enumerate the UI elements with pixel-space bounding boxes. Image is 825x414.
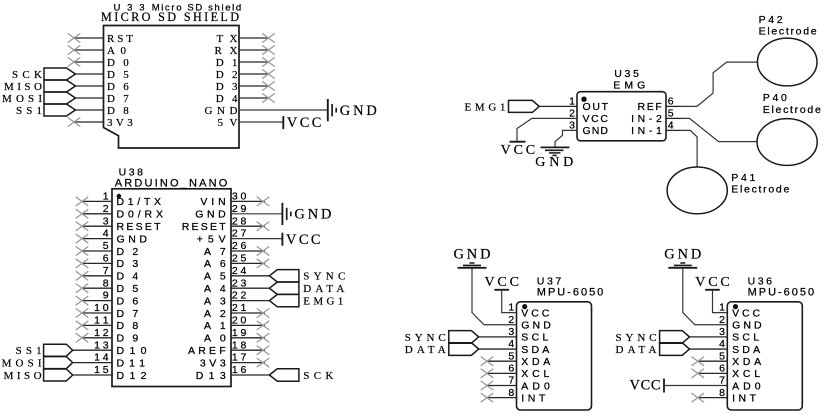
pin 4 IN-1 of U35 (right) [631,120,681,138]
pin D8 of U33 (left) [74,105,129,117]
no-connect X on U36 pin 6 [692,369,705,378]
svg-text:6: 6 [103,253,109,265]
power symbol VCC at U36 pin 7 AD0 [630,377,665,393]
no-connect X on U38 pin 6 [76,259,89,268]
svg-text:GND: GND [195,209,226,221]
svg-text:RST: RST [107,33,133,45]
svg-text:OUT: OUT [583,101,609,113]
svg-text:SS1: SS1 [16,105,42,117]
net flag MISO at U33 [4,80,75,93]
pin 12 D9 of U38 (left) [82,327,138,345]
svg-text:5: 5 [508,350,514,362]
svg-text:8: 8 [103,277,109,289]
svg-text:9: 9 [103,290,109,302]
pin A0 of U33 (left) [74,45,127,57]
power symbol GND at U33 pin GND [328,99,377,121]
svg-text:P42: P42 [759,14,783,26]
net flag MOSI at U33 [2,92,75,105]
pin 28 RESET of U38 (right) [182,215,265,233]
ground symbol GND below U35 [535,147,573,170]
pin 25 A6 of U38 (right) [204,253,265,271]
pin 11 D8 of U38 (left) [82,315,138,333]
svg-text:1: 1 [103,191,109,203]
net flag SCK at U38 pin 16 [269,369,333,382]
net flag SS1 at U33 [16,104,75,117]
pin 29 GND of U38 (right) [195,203,282,221]
pin D2 of U33 (right) [216,69,269,81]
svg-text:SCL: SCL [732,332,759,344]
wire U35 pin 2 VCC to power symbol [517,118,577,141]
pin 24 A5 of U38 (right) [204,265,269,283]
svg-text:GND: GND [732,320,762,332]
pin 16 D13 of U38 (right) [196,364,270,382]
net flag DATA at U38 pin 23 [269,282,344,295]
wire ground to U36 pin 2 [683,268,728,325]
IC U33 MICRO SD SHIELD body [104,26,240,149]
pin 27 +5V of U38 (right) [197,228,283,246]
power symbol VCC below U35 [501,142,536,159]
no-connect X on U38 pin 11 [76,321,89,330]
pin 2 GND of U36 [719,314,762,332]
no-connect X on U33 pin RX [262,45,275,54]
pin 18 AREF of U38 (right) [188,339,265,357]
svg-text:Electrode: Electrode [731,184,789,196]
pin 1 D1/TX of U38 (left) [82,191,161,209]
pin 8 D5 of U38 (left) [82,277,138,295]
net flag SS1 at U38 pin 13 [16,344,73,357]
pin 6 XCL of U36 [698,362,760,380]
pin D7 of U33 (left) [74,93,129,105]
pin 2 D0/RX of U38 (left) [82,203,163,221]
svg-text:GND: GND [454,246,491,262]
pin 1 marker dot of U37 [522,304,527,309]
svg-text:3V3: 3V3 [107,117,133,129]
wire U35 pin 3 GND to ground symbol [555,130,577,147]
no-connect X on U38 pin 2 [76,209,89,218]
svg-text:GND: GND [294,207,331,223]
pin 21 A2 of U38 (right) [204,302,265,320]
no-connect X on U38 pin 25 [257,259,270,268]
pin 7 AD0 of U37 [487,375,550,393]
pin 1 marker dot of U36 [733,304,738,309]
pin 26 A7 of U38 (right) [204,240,265,258]
svg-text:SCK: SCK [303,370,333,382]
net flag SYNC at U36 [616,331,690,344]
power symbol GND at U38 pin 29 [282,203,331,225]
svg-text:D11: D11 [117,357,146,369]
svg-text:VCC: VCC [732,307,760,319]
no-connect X on U38 pin 3 [76,222,89,231]
power symbol VCC at U33 pin 5V [283,115,321,131]
pin D6 of U33 (left) [74,81,129,93]
pin RST of U33 (left) [74,33,133,45]
svg-text:4: 4 [508,338,514,350]
svg-text:6: 6 [668,96,674,108]
IC U36 MPU-6050 body [727,302,802,410]
svg-text:GND: GND [664,246,701,262]
svg-text:P41: P41 [731,172,755,184]
no-connect X on U38 pin 20 [257,321,270,330]
wire VCC to U37 pin 1 [502,290,517,313]
wire VCC to U36 pin 1 [713,290,728,313]
svg-text:5: 5 [719,350,725,362]
no-connect X on U38 pin 19 [257,333,270,342]
no-connect X on U33 pin D3 [262,81,275,90]
pin D3 of U33 (right) [216,81,269,93]
pin 8 INT of U37 [487,387,546,405]
pin 2 VCC of U35 (left) [569,108,608,126]
pin D5 of U33 (left) [74,69,129,81]
svg-text:2: 2 [719,314,725,326]
svg-text:SS1: SS1 [16,345,42,357]
net flag EMG1 at U35 pin 1 [465,100,540,113]
pin 9 D6 of U38 (left) [82,290,138,308]
pin 23 A4 of U38 (right) [204,277,269,295]
svg-text:3: 3 [103,215,109,227]
svg-text:+5V: +5V [197,233,226,245]
svg-text:7: 7 [103,265,109,277]
no-connect X on U38 pin 17 [257,358,270,367]
electrode P40 [757,119,817,166]
pin 15 D12 of U38 (left) [73,364,147,382]
no-connect X on U36 pin 8 [692,393,705,402]
no-connect X on U38 pin 7 [76,271,89,280]
pin 5 XDA of U36 [698,350,761,368]
net flag SYNC at U38 pin 24 [269,270,345,283]
label P42 Electrode [759,14,817,38]
no-connect X on U37 pin 5 [481,357,494,366]
pin 2 GND of U37 [508,314,551,332]
pin 3 RESET of U38 (left) [82,215,161,233]
svg-text:4: 4 [668,120,674,132]
svg-text:VCC: VCC [501,143,536,158]
svg-text:GND: GND [583,125,609,137]
svg-text:D0/RX: D0/RX [117,209,164,221]
svg-text:XCL: XCL [521,368,549,380]
pin 5 D2 of U38 (left) [82,240,138,258]
svg-text:VCC: VCC [521,307,549,319]
svg-text:Electrode: Electrode [763,104,821,116]
wire U35 IN-1 to electrode P41 [681,130,697,167]
no-connect X on U38 pin 12 [76,333,89,342]
svg-text:VCC: VCC [287,115,322,131]
IC U35 EMG body [577,92,666,141]
no-connect X on U37 pin 6 [481,369,494,378]
no-connect X on U38 pin 30 [257,197,270,206]
wire U35 REF to electrode P42 [681,62,757,106]
pin 17 3V3 of U38 (right) [200,352,265,370]
net flag SYNC at U37 [405,331,479,344]
svg-text:U35: U35 [614,68,639,80]
no-connect X on U38 pin 10 [76,308,89,317]
svg-text:5: 5 [668,108,674,120]
pin 3 SCL of U37 [479,326,549,344]
svg-text:7: 7 [508,375,514,387]
svg-text:EMG: EMG [613,79,645,91]
svg-text:1: 1 [508,302,514,314]
svg-text:6: 6 [719,362,725,374]
svg-text:D12: D12 [117,370,147,382]
wire ground to U37 pin 2 [472,268,517,325]
pin 7 D4 of U38 (left) [82,265,138,283]
svg-text:VCC: VCC [583,113,609,125]
svg-text:VCC: VCC [286,232,321,248]
svg-text:AD0: AD0 [521,380,550,392]
no-connect X on U37 pin 7 [481,381,494,390]
pin 1 VCC of U37 [508,302,549,320]
pin 3V3 of U33 (left) [74,117,133,129]
svg-text:8: 8 [508,387,514,399]
pin 7 AD0 of U36 [664,375,760,393]
ground symbol GND above U36 [664,246,701,267]
net flag DATA at U36 [616,343,690,356]
svg-text:2: 2 [103,203,109,215]
svg-text:2: 2 [569,108,575,120]
svg-text:2: 2 [508,314,514,326]
svg-text:XDA: XDA [521,356,550,368]
svg-text:GND: GND [535,155,573,170]
no-connect X on U33 pin A0 [68,45,81,54]
pin 14 D11 of U38 (left) [73,352,145,370]
net flag SCK at U33 [12,68,75,81]
pin 13 D10 of U38 (left) [73,339,147,357]
pin D0 of U33 (left) [74,57,129,69]
svg-text:GND: GND [205,105,238,117]
svg-text:GND: GND [117,233,148,245]
svg-text:Electrode: Electrode [759,26,817,38]
svg-text:8: 8 [719,387,725,399]
svg-text:XCL: XCL [732,368,760,380]
label P41 Electrode [731,172,789,196]
pin 3 GND of U35 (left) [569,120,608,138]
svg-text:ARDUINO_NANO: ARDUINO_NANO [115,178,228,190]
pin GND of U33 (right) [205,105,328,117]
net flag MISO at U38 pin 15 [4,369,73,382]
svg-text:AD0: AD0 [732,380,761,392]
power symbol VCC above U37 [484,275,519,290]
pin 1 marker dot of U38 [117,194,122,199]
IC U37 MPU-6050 body [517,302,592,410]
no-connect X on U33 pin D0 [68,57,81,66]
no-connect X on U33 pin 3V3 [68,117,81,126]
net flag DATA at U37 [405,343,479,356]
svg-text:GND: GND [340,103,377,119]
svg-text:D1/TX: D1/TX [117,196,162,208]
pin 5 IN-2 of U35 (right) [631,108,681,126]
svg-text:4: 4 [103,228,109,240]
IC U38 ARDUINO_NANO body [112,189,231,387]
pin D1 of U33 (right) [216,57,269,69]
no-connect X on U33 pin TX [262,33,275,42]
no-connect X on U33 pin D4 [262,93,275,102]
power symbol VCC at U38 pin 27 [282,232,320,248]
ground symbol GND above U37 [454,246,491,267]
svg-text:1: 1 [719,302,725,314]
no-connect X on U33 pin D1 [262,57,275,66]
svg-text:7: 7 [719,375,725,387]
svg-text:3V3: 3V3 [200,357,226,369]
label P40 Electrode [763,92,821,116]
svg-text:VCC: VCC [630,377,661,393]
net flag EMG1 at U38 pin 22 [269,294,343,307]
svg-text:P40: P40 [763,92,787,104]
pin 5 XDA of U37 [487,350,550,368]
pin 6 D3 of U38 (left) [82,253,138,271]
svg-text:XDA: XDA [732,356,761,368]
svg-text:VCC: VCC [695,275,730,290]
pin 3 SCL of U36 [690,326,760,344]
svg-text:D10: D10 [117,345,147,357]
no-connect X on U38 pin 5 [76,246,89,255]
wire U35 IN-2 to electrode P40 [681,118,757,141]
svg-text:SDA: SDA [732,344,760,356]
power symbol VCC above U36 [695,275,730,290]
electrode P42 [757,38,817,86]
no-connect X on U33 pin RST [68,33,81,42]
pin 5V of U33 (right) [218,117,284,129]
pin 1 VCC of U36 [719,302,760,320]
electrode P41 [667,167,727,214]
svg-text:5: 5 [103,240,109,252]
no-connect X on U38 pin 28 [257,222,270,231]
svg-text:RESET: RESET [182,221,227,233]
svg-text:SCK: SCK [12,69,42,81]
svg-text:D13: D13 [196,370,226,382]
svg-text:SDA: SDA [521,344,549,356]
svg-text:RESET: RESET [117,221,162,233]
pin 4 SDA of U36 [690,338,761,356]
pin D4 of U33 (right) [216,93,269,105]
svg-text:REF: REF [638,101,662,113]
pin 1 OUT of U35 (left) [539,96,608,114]
svg-text:VIN: VIN [200,196,225,208]
pin 22 A3 of U38 (right) [204,290,269,308]
pin 4 GND of U38 (left) [82,228,147,246]
pin RX of U33 (right) [215,45,269,57]
pin 10 D7 of U38 (left) [82,302,138,320]
pin 8 INT of U36 [698,387,757,405]
no-connect X on U38 pin 1 [76,197,89,206]
no-connect X on U37 pin 8 [481,393,494,402]
pin 30 VIN of U38 (right) [200,191,265,209]
no-connect X on U38 pin 9 [76,296,89,305]
svg-text:3: 3 [508,326,514,338]
svg-text:4: 4 [719,338,725,350]
no-connect X on U38 pin 8 [76,284,89,293]
svg-text:6: 6 [508,362,514,374]
pin TX of U33 (right) [217,33,269,45]
pin 1 marker dot of U35 [581,97,586,102]
svg-text:VCC: VCC [484,275,519,290]
no-connect X on U38 pin 18 [257,346,270,355]
no-connect X on U36 pin 5 [692,357,705,366]
no-connect X on U38 pin 4 [76,234,89,243]
svg-text:1: 1 [569,96,575,108]
net flag MOSI at U38 pin 14 [2,357,73,370]
pin 4 SDA of U37 [479,338,550,356]
no-connect X on U38 pin 21 [257,308,270,317]
no-connect X on U38 pin 26 [257,246,270,255]
svg-text:SCL: SCL [521,332,548,344]
svg-text:3: 3 [569,120,575,132]
pin 20 A1 of U38 (right) [204,315,265,333]
svg-text:3: 3 [719,326,725,338]
pin 6 XCL of U37 [487,362,549,380]
svg-text:GND: GND [521,320,551,332]
pin 6 REF of U35 (right) [638,96,682,114]
no-connect X on U33 pin D2 [262,69,275,78]
pin 19 A0 of U38 (right) [204,327,265,345]
